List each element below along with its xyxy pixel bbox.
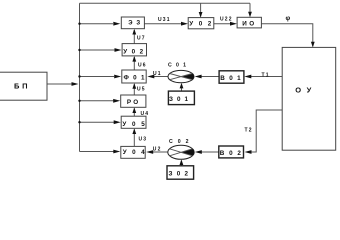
svg-text:U22: U22 xyxy=(220,16,233,22)
label phi xyxy=(286,15,291,22)
wire: B01 output to C01 with arrow xyxy=(195,75,220,79)
label C01 xyxy=(168,63,186,69)
svg-text:U1: U1 xyxy=(153,71,162,77)
wire: F01 up to U02 with arrow xyxy=(132,56,136,70)
block U05 xyxy=(121,116,146,128)
svg-text:φ: φ xyxy=(286,15,291,22)
svg-text:З02: З02 xyxy=(169,171,189,178)
wire: U05 up to RO with arrow xyxy=(132,107,136,116)
svg-text:T1: T1 xyxy=(262,72,270,78)
svg-text:З01: З01 xyxy=(169,96,188,103)
svg-text:В01: В01 xyxy=(220,75,241,82)
wire: drop from top bus into U02 top xyxy=(199,3,203,17)
wire: bus branch to RO left xyxy=(78,99,120,103)
wire: BP output to bus xyxy=(47,82,79,86)
wire: drop from top bus into IO top xyxy=(248,3,252,17)
block IO (actuator) xyxy=(237,17,261,28)
label T2 xyxy=(245,128,253,134)
wire: C02 output to U04 with arrow xyxy=(146,150,168,154)
wire: C01 output to F01 with arrow xyxy=(147,75,168,79)
wire: U02 top-row output to IO xyxy=(214,22,237,26)
wire: U02 up to EZ with arrow xyxy=(132,29,136,44)
wire: OU T1 to B01 with arrow xyxy=(244,75,282,79)
wire: bus branch to F01 left xyxy=(78,75,121,79)
svg-text:U7: U7 xyxy=(137,36,146,42)
block EZ (delay element) xyxy=(121,17,144,29)
label U6 xyxy=(138,63,147,69)
wire: EZ output to U02 top-row xyxy=(144,22,188,26)
wire: IO output right and down into OU top xyxy=(261,24,314,48)
wire: B02 output to C02 with arrow xyxy=(195,150,219,154)
label C02 xyxy=(169,139,189,145)
svg-text:У05: У05 xyxy=(122,121,145,128)
svg-text:У02: У02 xyxy=(189,20,211,27)
svg-text:U5: U5 xyxy=(137,86,146,92)
label T1 xyxy=(262,72,270,78)
svg-text:U31: U31 xyxy=(158,17,171,23)
block BP xyxy=(0,72,47,100)
label U3 xyxy=(139,136,148,142)
wire: OU T2 down and left to B02 with arrow xyxy=(245,110,283,154)
wire: Z01 up to C01 with arrow xyxy=(180,83,184,91)
label U22 xyxy=(220,16,233,22)
label U7 xyxy=(137,36,146,42)
block U02 left column xyxy=(122,44,146,56)
svg-text:РО: РО xyxy=(127,99,138,106)
block B01 (sensor 1) xyxy=(219,71,244,83)
wire: U04 up to U05 with arrow xyxy=(132,128,136,146)
svg-text:У04: У04 xyxy=(123,149,145,156)
block B02 (sensor 2) xyxy=(219,146,244,158)
wire: Z02 up to C02 with arrow xyxy=(180,159,184,165)
block F01 xyxy=(122,70,146,83)
label U31 xyxy=(158,17,171,23)
svg-text:T2: T2 xyxy=(245,128,253,134)
svg-text:Ф01: Ф01 xyxy=(124,75,145,82)
wire: power bus vertical xyxy=(79,3,81,151)
wire: bus branch to U05 left xyxy=(78,120,120,124)
block U04 xyxy=(121,146,145,158)
svg-text:U2: U2 xyxy=(153,146,162,152)
comparator C02 xyxy=(168,145,194,159)
label U1 xyxy=(153,71,162,77)
wire: top power bus horizontal xyxy=(80,2,251,4)
wire: bus bottom corner to U04 left xyxy=(80,150,121,154)
svg-text:В02: В02 xyxy=(220,150,242,157)
block U02 top-row amplifier xyxy=(188,18,214,29)
svg-text:U3: U3 xyxy=(139,136,148,142)
block Z02 (setpoint 2) xyxy=(167,166,194,179)
svg-text:C02: C02 xyxy=(169,139,189,145)
svg-text:C01: C01 xyxy=(168,63,186,69)
wire: RO up to F01 with arrow xyxy=(132,83,136,95)
block RO xyxy=(121,95,146,107)
svg-text:U6: U6 xyxy=(138,63,147,69)
block OU (controlled object) xyxy=(282,47,336,150)
label U4 xyxy=(141,111,150,117)
wire: bus branch to U02 left xyxy=(78,48,121,52)
comparator C01 xyxy=(168,70,194,82)
block Z01 (setpoint 1) xyxy=(168,91,194,105)
wire: bus branch to EZ xyxy=(78,22,120,26)
svg-text:У02: У02 xyxy=(123,49,143,56)
label U2 xyxy=(153,146,162,152)
label U5 xyxy=(137,86,146,92)
